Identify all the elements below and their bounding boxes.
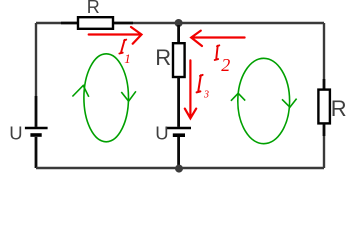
mesh loop left up-arrowhead [72, 86, 88, 97]
wire left battery bottom lead [35, 137, 38, 168]
node top junction [175, 19, 183, 27]
wire right resistor bottom lead [323, 123, 326, 136]
wire middle battery bottom lead [177, 137, 180, 166]
svg-text:3: 3 [203, 90, 209, 101]
svg-text:R: R [87, 0, 100, 17]
svg-text:2: 2 [221, 55, 230, 75]
wire middle resistor bottom lead [177, 77, 180, 127]
mesh loop left down-arrowhead [121, 91, 136, 101]
battery U (left) [25, 128, 48, 135]
wire middle resistor top lead [177, 25, 180, 43]
wire left vertical [35, 23, 37, 96]
label I1 [119, 40, 126, 54]
label I2 [215, 45, 220, 60]
mesh loop right (green ellipse) [238, 58, 290, 143]
wire right vertical lower [323, 136, 325, 168]
node bottom junction [175, 165, 183, 173]
wire bottom horizontal [36, 167, 324, 169]
wire left battery top lead [35, 96, 38, 127]
mesh loop right up-arrowhead [231, 93, 245, 101]
current arrow I1 [89, 27, 142, 44]
mesh loop right down-arrowhead [282, 99, 297, 108]
current arrow I2 [191, 31, 244, 46]
wire right vertical upper [323, 23, 325, 79]
svg-text:R: R [155, 45, 171, 70]
wire right resistor top lead [323, 79, 326, 90]
mesh loop left (green ellipse) [84, 54, 129, 142]
resistor R2 (middle) [173, 43, 185, 77]
label I3 [197, 75, 203, 93]
svg-text:R: R [331, 96, 347, 121]
wire top resistor leads [61, 22, 133, 25]
wire top horizontal [36, 22, 324, 24]
current arrow I3 [185, 60, 196, 118]
battery U (middle) [167, 128, 191, 135]
resistor R3 (right) [318, 90, 330, 124]
resistor R1 (top) [78, 17, 113, 29]
svg-text:U: U [9, 122, 22, 143]
svg-text:U: U [155, 122, 168, 143]
svg-text:1: 1 [124, 51, 131, 66]
